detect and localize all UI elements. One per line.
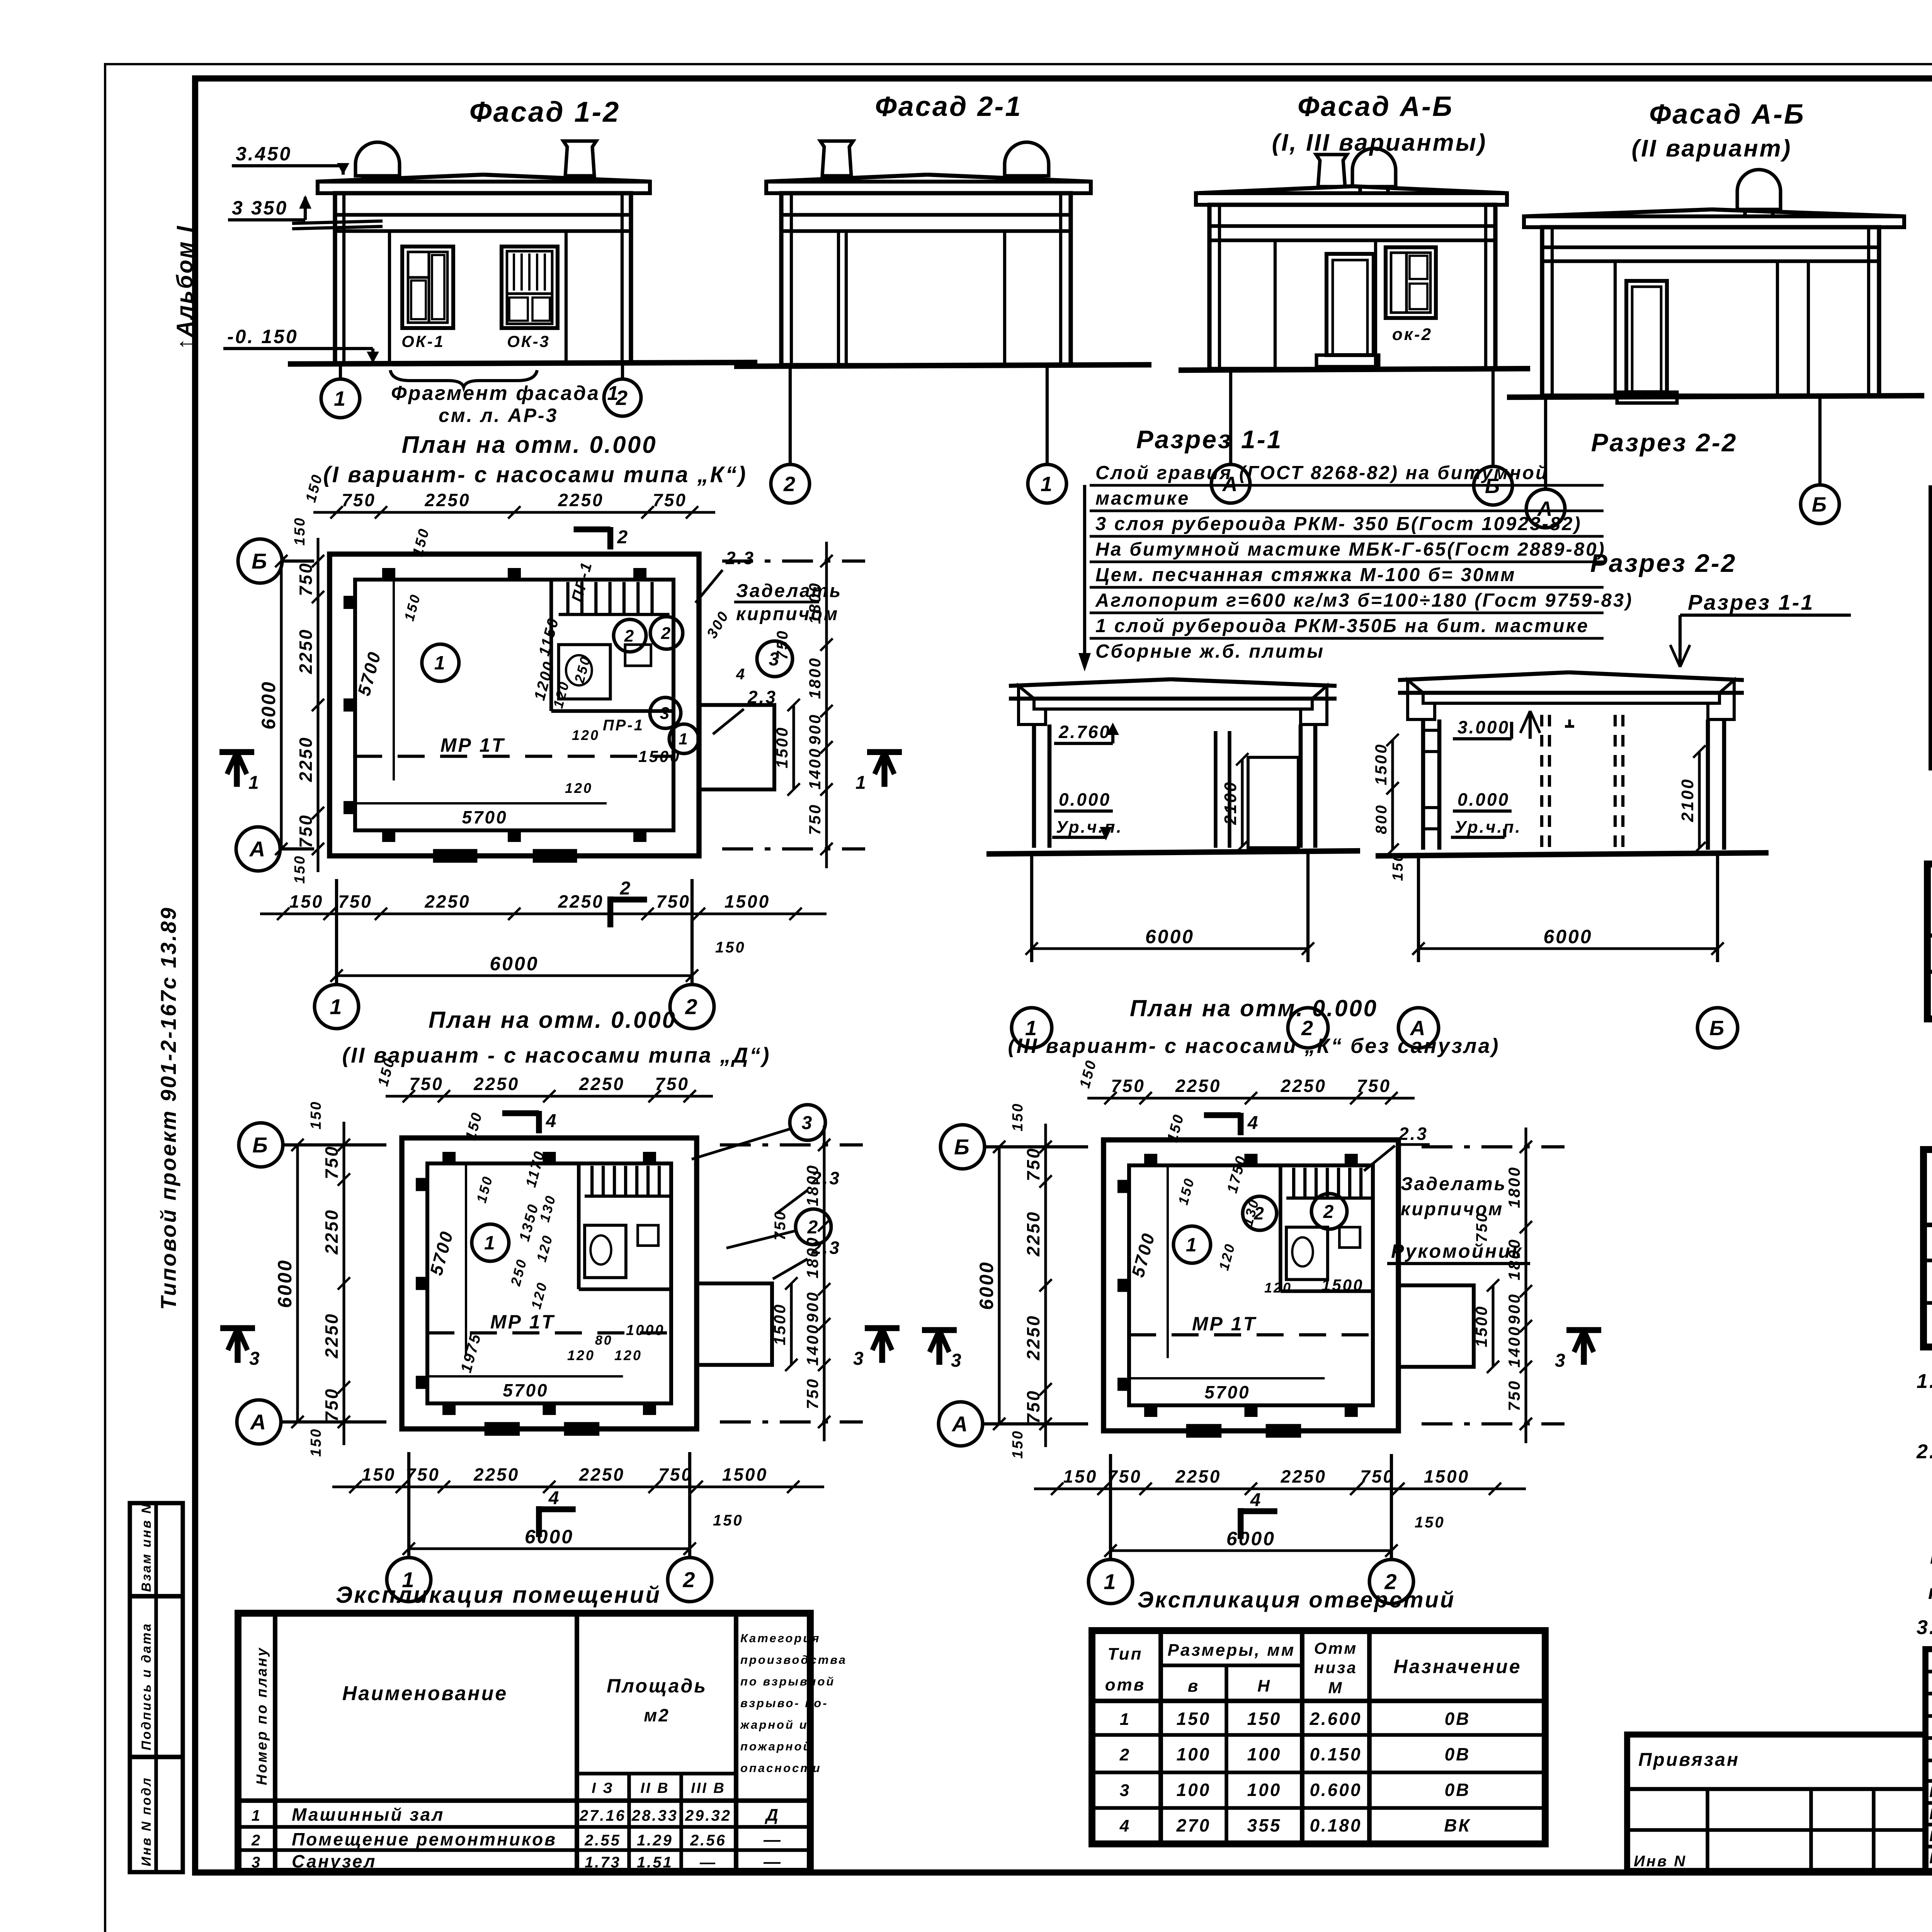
svg-text:4: 4	[548, 1488, 561, 1509]
svg-text:—: —	[763, 1830, 782, 1849]
svg-text:150: 150	[1177, 1709, 1211, 1729]
svg-text:2250: 2250	[473, 1074, 519, 1094]
svg-text:2250: 2250	[296, 736, 316, 782]
svg-text:1.51: 1.51	[637, 1854, 673, 1871]
svg-text:2100: 2100	[1678, 778, 1697, 822]
svg-text:Разрез 1-1: Разрез 1-1	[1688, 590, 1815, 614]
plan I interior callout circle 1	[669, 724, 699, 753]
plan variant I room circle 1	[422, 644, 459, 681]
svg-text:1: 1	[1041, 473, 1054, 496]
svg-text:взрыво- по-: взрыво- по-	[740, 1696, 828, 1710]
svg-text:см. л. АР-3: см. л. АР-3	[439, 405, 558, 426]
svg-text:2.600: 2.600	[1309, 1709, 1362, 1729]
svg-text:4: 4	[1247, 1113, 1260, 1133]
svg-text:120: 120	[614, 1347, 642, 1363]
svg-text:Б: Б	[252, 1133, 269, 1157]
svg-text:750: 750	[656, 891, 690, 912]
svg-text:750: 750	[342, 490, 376, 510]
svg-text:150: 150	[362, 1464, 396, 1485]
svg-text:Фасад 2-1: Фасад 2-1	[875, 91, 1022, 122]
svg-text:Размеры, мм: Размеры, мм	[1168, 1641, 1296, 1660]
svg-text:ГИП: ГИП	[1929, 1828, 1932, 1845]
facade A-B II walls	[1542, 227, 1879, 396]
svg-text:6000: 6000	[490, 953, 539, 975]
svg-text:150: 150	[713, 1512, 743, 1529]
svg-text:А: А	[249, 837, 267, 861]
svg-text:3 слоя рубероида РКМ- 350 Б(Го: 3 слоя рубероида РКМ- 350 Б(Гост 10923-8…	[1095, 514, 1582, 534]
svg-text:4: 4	[546, 1111, 558, 1131]
plan variant III room circle 1	[1173, 1226, 1211, 1263]
svg-text:6000: 6000	[274, 1259, 296, 1308]
svg-text:1: 1	[1120, 1710, 1131, 1729]
svg-text:1000: 1000	[626, 1322, 665, 1338]
svg-text:0В: 0В	[1445, 1780, 1471, 1800]
facade 1-2 axis circle 1	[339, 363, 342, 380]
spec table peremychek grid	[1927, 864, 1932, 1019]
svg-text:(II вариант): (II вариант)	[1632, 135, 1792, 162]
plan variant III dim chains left	[1044, 1124, 1047, 1447]
plan variant III sanitary cabin	[1286, 1227, 1328, 1280]
plan variant II dim chains left	[342, 1122, 345, 1445]
svg-text:750: 750	[658, 1464, 693, 1485]
facade A-B I III walls	[1209, 205, 1495, 369]
facade 1-2 vent dome	[355, 142, 400, 176]
plan variant I dim chains left	[316, 538, 319, 872]
svg-text:Разрез 1-1: Разрез 1-1	[1136, 425, 1283, 454]
svg-text:150: 150	[1063, 1466, 1098, 1486]
facade A-B I III horizontal bands	[1209, 224, 1495, 228]
explikatsiya pomeshcheniy grid	[238, 1613, 810, 1871]
svg-text:Заделать: Заделать	[1401, 1174, 1507, 1194]
facade A-B I III roof slab	[1196, 186, 1352, 193]
svg-text:3: 3	[252, 1854, 262, 1871]
svg-text:-0. 150: -0. 150	[227, 326, 298, 347]
svg-text:750: 750	[296, 814, 316, 848]
section 1-1 left wall	[1032, 724, 1036, 848]
section 2-2 left wall with openings	[1421, 719, 1425, 850]
svg-text:1500: 1500	[1424, 1466, 1469, 1486]
facade 1-2 horizontal bands	[335, 213, 631, 216]
plan II callout circle 3 top	[790, 1105, 825, 1140]
svg-text:1400: 1400	[1505, 1325, 1523, 1367]
facade 2-1 vent dome	[1005, 142, 1049, 176]
svg-text:Аглопорит г=600 кг/м3 б=100÷18: Аглопорит г=600 кг/м3 б=100÷180 (Гост 97…	[1095, 590, 1633, 611]
svg-text:Назначение: Назначение	[1393, 1656, 1521, 1677]
svg-text:1: 1	[434, 652, 447, 674]
facade A-B I III vent dome	[1352, 148, 1396, 187]
svg-text:2: 2	[661, 624, 672, 643]
svg-text:1400: 1400	[803, 1323, 821, 1366]
facade 2-1 axis circle 1	[1046, 366, 1049, 464]
svg-text:МР 1Т: МР 1Т	[1192, 1313, 1257, 1335]
svg-text:120: 120	[572, 727, 600, 743]
svg-text:750: 750	[1023, 1389, 1043, 1424]
plan variant I tambour	[699, 705, 774, 790]
svg-text:2: 2	[1119, 1745, 1131, 1764]
svg-text:Помещение ремонтников: Помещение ремонтников	[292, 1829, 557, 1849]
svg-text:1: 1	[1186, 1234, 1198, 1256]
svg-text:2250: 2250	[558, 891, 604, 912]
plan variant III tambour	[1398, 1286, 1474, 1367]
svg-text:750: 750	[296, 562, 316, 596]
svg-text:750: 750	[806, 803, 824, 835]
svg-text:Площадь: Площадь	[607, 1675, 707, 1697]
plan variant II axis dash line	[427, 1331, 671, 1334]
svg-text:Разрез 2-2: Разрез 2-2	[1590, 549, 1737, 577]
plan variant III wall pilasters	[1144, 1154, 1157, 1165]
svg-text:3: 3	[951, 1350, 963, 1371]
svg-text:МР 1Т: МР 1Т	[490, 1311, 555, 1333]
svg-text:27.16: 27.16	[579, 1807, 626, 1824]
svg-text:—: —	[763, 1852, 782, 1871]
svg-text:Н: Н	[1257, 1677, 1271, 1696]
facade 1-2 panel joints	[388, 231, 391, 363]
facade 2-1 axis circle 2	[789, 366, 792, 464]
left bottom inventory boxes column	[130, 1503, 183, 1872]
svg-text:2250: 2250	[1175, 1466, 1221, 1486]
svg-text:150: 150	[1010, 1430, 1026, 1459]
svg-text:2250: 2250	[296, 628, 316, 674]
svg-text:ОК-1: ОК-1	[401, 332, 445, 350]
section 1-1 right parapet	[1301, 686, 1327, 724]
vedomost proemov dverey grid	[1923, 1150, 1932, 1347]
section 1-1 axis circle 1	[1012, 1008, 1052, 1048]
section 2-2 axis circle A	[1398, 1008, 1439, 1048]
svg-text:2250: 2250	[1281, 1076, 1327, 1096]
svg-text:750: 750	[1505, 1379, 1523, 1411]
facade A-B II roof slab	[1524, 209, 1712, 216]
svg-text:2.55: 2.55	[584, 1832, 621, 1849]
plan variant III dim chains right	[1524, 1128, 1527, 1443]
plan variant III stair hatch	[1292, 1168, 1295, 1198]
plan variant III dim chain top	[1087, 1097, 1415, 1099]
svg-text:120: 120	[565, 780, 593, 796]
svg-text:Категория: Категория	[740, 1631, 821, 1645]
svg-text:2250: 2250	[579, 1074, 625, 1094]
plan I interior callout circles 2 2	[614, 619, 646, 652]
facade A-B II panel joints	[1614, 261, 1617, 396]
svg-text:750: 750	[1357, 1076, 1391, 1096]
svg-text:5700: 5700	[1204, 1382, 1250, 1402]
plan I callout circle 3 right	[757, 641, 793, 677]
facade 1-2 axis circle 2	[621, 363, 624, 380]
svg-text:2250: 2250	[1281, 1466, 1327, 1486]
svg-text:2250: 2250	[558, 490, 604, 510]
section 1-1 ground line	[986, 851, 1360, 854]
plan variant II axis circles	[282, 1143, 386, 1146]
svg-text:2250: 2250	[1023, 1211, 1043, 1257]
svg-text:0.600: 0.600	[1310, 1780, 1362, 1800]
svg-text:270: 270	[1176, 1815, 1211, 1835]
svg-text:Инв N: Инв N	[1634, 1853, 1687, 1870]
facade A-B II door	[1626, 281, 1667, 392]
plan variant I axis circles	[281, 560, 314, 563]
plan variant II section cut marks	[235, 1328, 240, 1363]
section 1-1 roof slab	[1009, 679, 1171, 686]
svg-text:Сборные ж.б. плиты: Сборные ж.б. плиты	[1095, 641, 1325, 662]
plan variant I axis dash line	[355, 755, 673, 758]
svg-text:Рук.гр: Рук.гр	[1929, 1850, 1932, 1867]
svg-text:Фрагмент фасада 1: Фрагмент фасада 1	[391, 382, 620, 405]
svg-text:3: 3	[1555, 1350, 1567, 1371]
svg-text:Отм: Отм	[1314, 1639, 1358, 1657]
plan variant III bottom wall openings	[1186, 1424, 1222, 1437]
facade 2-1 ground line	[734, 365, 1151, 366]
section 1-1 dim 2100	[1241, 759, 1243, 846]
svg-text:по взрывной: по взрывной	[740, 1675, 835, 1688]
plan variant II tambour	[697, 1284, 772, 1365]
svg-text:1500: 1500	[773, 726, 791, 768]
svg-text:2.3: 2.3	[811, 1238, 841, 1258]
svg-text:1500: 1500	[1321, 1276, 1364, 1294]
svg-text:↑Альбом I: ↑Альбом I	[172, 224, 197, 350]
svg-text:0В: 0В	[1445, 1709, 1471, 1729]
svg-text:Д: Д	[764, 1806, 780, 1825]
svg-text:Цем. песчанная стяжка М-100 б=: Цем. песчанная стяжка М-100 б= 30мм	[1095, 565, 1516, 585]
section 2-2 dim 6000	[1417, 856, 1420, 962]
svg-text:150: 150	[1415, 1514, 1445, 1531]
facade A-B I III door	[1327, 254, 1374, 355]
svg-text:3: 3	[853, 1349, 865, 1369]
plan variant I dim chains right	[825, 542, 828, 868]
svg-text:в: в	[1188, 1677, 1200, 1696]
svg-text:1: 1	[679, 730, 689, 748]
svg-text:2250: 2250	[321, 1209, 342, 1255]
plan variant I stair hatch	[566, 582, 569, 614]
svg-text:Б: Б	[252, 549, 269, 573]
section 2-2 dims 1500 800 left	[1391, 740, 1394, 788]
svg-text:1: 1	[334, 387, 347, 410]
svg-text:—: —	[699, 1854, 717, 1871]
svg-text:1.29: 1.29	[637, 1832, 673, 1849]
svg-text:Наименование: Наименование	[342, 1682, 508, 1705]
svg-text:Подпись и дата: Подпись и дата	[139, 1622, 154, 1750]
svg-text:А: А	[250, 1410, 267, 1434]
title block left attachment part	[1627, 1735, 1925, 1871]
svg-text:1.73: 1.73	[585, 1854, 621, 1871]
svg-text:1: 1	[484, 1232, 497, 1254]
svg-text:2: 2	[1323, 1202, 1335, 1222]
svg-text:355: 355	[1247, 1815, 1282, 1835]
svg-text:Тип: Тип	[1108, 1645, 1143, 1663]
svg-text:2100: 2100	[1221, 781, 1240, 825]
svg-text:0.000: 0.000	[1059, 789, 1111, 810]
svg-text:2.56: 2.56	[690, 1832, 726, 1849]
svg-text:5700: 5700	[462, 807, 507, 827]
svg-text:низа: низа	[1314, 1658, 1357, 1677]
svg-text:А: А	[951, 1412, 969, 1436]
svg-text:3. Привязку отв. 1см раздел 0В: 3. Привязку отв. 1см раздел 0В. отв 4 ра…	[1917, 1616, 1932, 1639]
svg-text:0В: 0В	[1445, 1744, 1471, 1764]
svg-text:Б: Б	[1709, 1017, 1726, 1040]
svg-text:Фасад А-Б: Фасад А-Б	[1298, 91, 1454, 122]
svg-text:2. Армокирпичные перегородки а: 2. Армокирпичные перегородки армировать …	[1916, 1440, 1932, 1463]
svg-text:1: 1	[1104, 1570, 1117, 1594]
plan variant I wall pilasters	[382, 568, 395, 580]
roof layers leader arrow	[1083, 485, 1086, 653]
svg-text:150: 150	[1247, 1709, 1282, 1729]
svg-text:Машинный зал: Машинный зал	[292, 1804, 444, 1825]
svg-text:150: 150	[715, 939, 746, 956]
plan variant II dim chain top	[386, 1095, 713, 1097]
section 2-2 roof slab	[1398, 672, 1569, 680]
svg-text:750: 750	[1107, 1466, 1142, 1486]
svg-text:Разрез 2-2: Разрез 2-2	[1591, 428, 1738, 457]
svg-text:Ур.ч.п.: Ур.ч.п.	[1455, 818, 1522, 837]
plan variant II wall pilasters	[442, 1152, 456, 1163]
plan variant III outer walls	[1104, 1140, 1398, 1431]
svg-text:2250: 2250	[424, 891, 470, 912]
svg-text:150: 150	[292, 855, 308, 884]
svg-text:1: 1	[248, 772, 260, 793]
plan variant I dim chains bottom	[260, 912, 827, 915]
facade A-B I III chimney	[1316, 155, 1347, 187]
section 1-1 axis circle 2	[1288, 1008, 1328, 1048]
svg-text:1500: 1500	[722, 1464, 768, 1485]
svg-text:Рукомойник: Рукомойник	[1391, 1240, 1523, 1262]
svg-text:1: 1	[252, 1807, 262, 1824]
facade A-B I III window OK-2	[1386, 247, 1436, 318]
plan II callout circle 2	[796, 1209, 831, 1245]
svg-text:(III вариант- с насосами „К“ б: (III вариант- с насосами „К“ без санузла…	[1008, 1034, 1500, 1058]
svg-text:1500: 1500	[770, 1303, 789, 1345]
svg-text:2250: 2250	[1023, 1315, 1043, 1361]
svg-text:2: 2	[685, 995, 699, 1019]
svg-text:2250: 2250	[1175, 1076, 1221, 1096]
facade A-B II axis circle B	[1818, 397, 1821, 484]
facade A-B II horizontal bands	[1542, 245, 1879, 249]
svg-text:3: 3	[1120, 1781, 1131, 1800]
svg-text:750: 750	[1111, 1076, 1145, 1096]
svg-text:750: 750	[803, 1378, 821, 1409]
svg-text:800: 800	[1373, 804, 1390, 834]
svg-text:750: 750	[1023, 1147, 1043, 1181]
svg-text:2: 2	[807, 1217, 820, 1238]
svg-text:(II вариант - с насосами типа: (II вариант - с насосами типа „Д“)	[342, 1043, 771, 1067]
explikatsiya otverstiy grid	[1092, 1631, 1545, 1844]
svg-text:Гл.конст.: Гл.конст.	[1929, 1806, 1932, 1823]
svg-text:29.32: 29.32	[685, 1807, 731, 1824]
plan variant II sanitary cabin	[585, 1225, 626, 1278]
plan variant I sanitary cabin	[559, 645, 611, 699]
svg-text:2250: 2250	[579, 1464, 625, 1485]
svg-text:0.000: 0.000	[1458, 789, 1510, 810]
svg-text:3 350: 3 350	[232, 197, 288, 219]
svg-text:100: 100	[1247, 1780, 1282, 1800]
facade A-B I III axis circle B	[1492, 370, 1495, 466]
svg-text:1 слой рубероида РКМ-350Б на б: 1 слой рубероида РКМ-350Б на бит. мастик…	[1095, 616, 1589, 636]
svg-text:М: М	[1328, 1679, 1344, 1697]
svg-text:3: 3	[802, 1113, 814, 1133]
svg-text:(I, III варианты): (I, III варианты)	[1272, 129, 1487, 156]
svg-text:На битумной мастике МБК-Г-65(Г: На битумной мастике МБК-Г-65(Гост 2889-8…	[1095, 539, 1606, 560]
svg-text:1: 1	[855, 772, 867, 793]
svg-text:6000: 6000	[1226, 1528, 1276, 1549]
plan variant I interior partition	[549, 580, 553, 645]
svg-text:ПР-1: ПР-1	[603, 717, 644, 734]
svg-text:Фасад 1-2: Фасад 1-2	[469, 96, 621, 128]
svg-text:2.760: 2.760	[1058, 722, 1111, 742]
svg-text:100: 100	[1247, 1744, 1282, 1764]
svg-text:План на отм. 0.000: План на отм. 0.000	[1130, 995, 1378, 1021]
svg-text:ВК: ВК	[1444, 1815, 1471, 1835]
svg-text:3.000: 3.000	[1458, 717, 1510, 737]
svg-text:1500: 1500	[638, 747, 680, 765]
plan variant III axis circles	[984, 1145, 1088, 1148]
svg-text:(I вариант- с насосами типа „К: (I вариант- с насосами типа „К“)	[323, 462, 747, 487]
section 2-2 interior partitions dashed	[1540, 715, 1543, 850]
section 2-2 right wall	[1706, 719, 1710, 850]
svg-text:2.3: 2.3	[1398, 1124, 1428, 1144]
svg-text:кирпичом: кирпичом	[1401, 1199, 1503, 1219]
section 1-1 dim 6000	[1030, 854, 1033, 962]
facade 1-2 window OK-1	[402, 247, 453, 328]
svg-text:2: 2	[783, 473, 797, 496]
facade 1-2 ground line	[288, 362, 757, 364]
svg-text:II В: II В	[640, 1780, 669, 1796]
svg-text:ОК-3: ОК-3	[507, 332, 550, 350]
svg-text:150: 150	[1010, 1102, 1026, 1131]
svg-text:750: 750	[653, 490, 687, 510]
facade 2-1 roof slab	[766, 175, 927, 182]
svg-text:750: 750	[406, 1464, 440, 1485]
svg-text:0.180: 0.180	[1310, 1815, 1362, 1835]
svg-text:Экспликация помещений: Экспликация помещений	[336, 1582, 661, 1608]
svg-text:100: 100	[1177, 1744, 1211, 1764]
svg-text:Привязан: Привязан	[1638, 1750, 1740, 1770]
svg-text:3: 3	[249, 1349, 261, 1369]
svg-text:6000: 6000	[525, 1526, 574, 1548]
svg-text:4: 4	[736, 666, 746, 683]
section 2-2 dim 2100 right	[1698, 752, 1701, 848]
svg-text:Б: Б	[954, 1135, 971, 1159]
facade A-B II porch step	[1617, 392, 1677, 403]
section 2-2 ground line	[1376, 853, 1769, 856]
svg-text:1800: 1800	[806, 656, 824, 699]
svg-text:1. Кирпичные вставки с наружно: 1. Кирпичные вставки с наружной стороны …	[1917, 1370, 1932, 1393]
svg-text:Б: Б	[1812, 493, 1828, 516]
svg-text:1: 1	[330, 995, 343, 1019]
section 2-2 left parapet	[1408, 680, 1435, 719]
svg-text:1500: 1500	[1472, 1305, 1490, 1347]
svg-text:2.3: 2.3	[811, 1168, 841, 1188]
svg-text:жарной и: жарной и	[740, 1718, 808, 1731]
plan variant II stair hatch	[590, 1166, 594, 1196]
svg-text:900: 900	[803, 1291, 821, 1323]
svg-text:5700: 5700	[503, 1380, 548, 1400]
svg-text:4: 4	[1119, 1816, 1131, 1835]
svg-text:Взам инв N: Взам инв N	[139, 1503, 154, 1592]
svg-text:80: 80	[595, 1333, 613, 1348]
svg-text:2: 2	[617, 527, 629, 548]
plan variant II dim chains right	[823, 1126, 825, 1441]
svg-text:Заделать: Заделать	[736, 581, 842, 601]
svg-text:Инв N подл: Инв N подл	[139, 1776, 154, 1866]
svg-text:Типовой проект 901-2-167с 13.8: Типовой проект 901-2-167с 13.89	[156, 906, 180, 1310]
svg-text:Санузел: Санузел	[292, 1851, 377, 1871]
svg-text:1500: 1500	[724, 891, 770, 912]
svg-text:2250: 2250	[473, 1464, 519, 1485]
svg-text:2: 2	[1253, 1203, 1265, 1223]
svg-text:150: 150	[289, 891, 324, 912]
svg-text:150: 150	[292, 517, 308, 546]
plan variant II outer walls	[402, 1138, 697, 1429]
facade 2-1 chimney	[820, 141, 853, 176]
svg-text:Нач.отд: Нач.отд	[1929, 1784, 1932, 1801]
svg-text:1800: 1800	[1505, 1166, 1523, 1208]
plan variant III dim chains bottom	[1034, 1487, 1526, 1490]
facade A-B I III axis circle A	[1229, 370, 1232, 464]
